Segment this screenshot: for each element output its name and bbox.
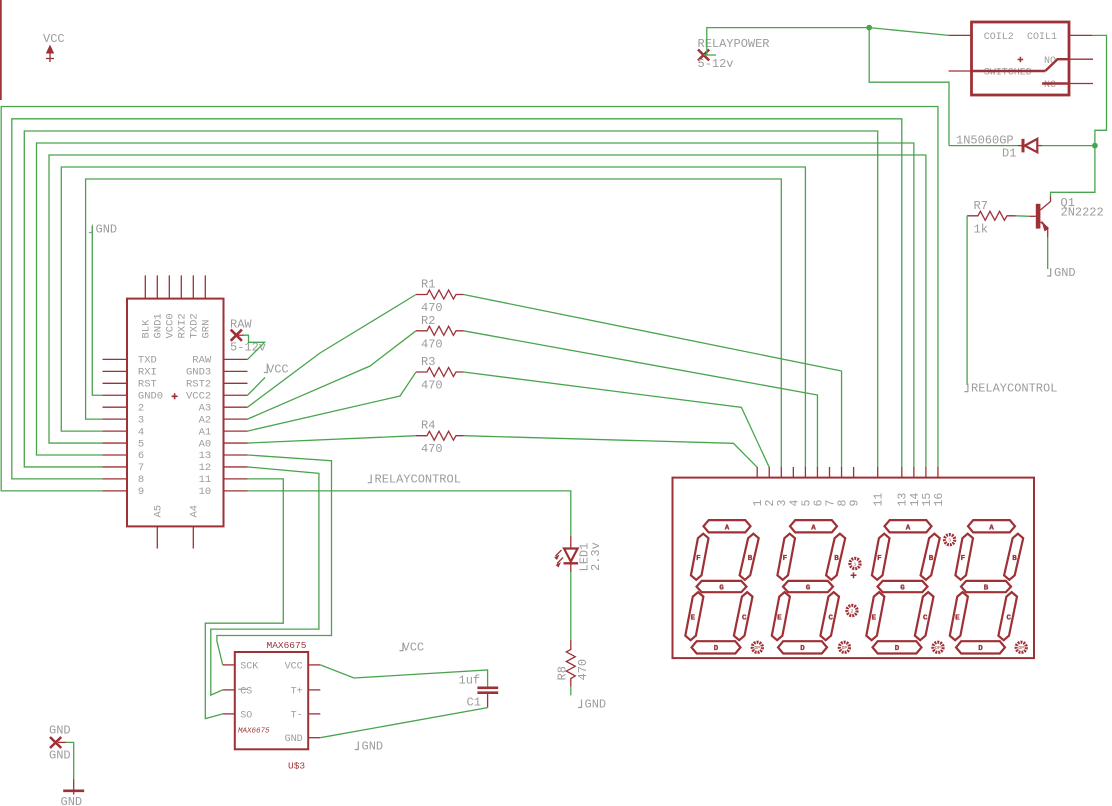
svg-text:RAW: RAW — [230, 318, 252, 332]
IC top pins BLK GND1 VCC0 RXI2 TXD2 GRN — [145, 275, 205, 298]
IC U1 Arduino Pro Mini body — [127, 299, 224, 527]
wire R4 to display pin1 — [464, 436, 758, 468]
svg-text:1k: 1k — [974, 223, 988, 237]
svg-text:A5: A5 — [153, 505, 165, 518]
svg-text:GND3: GND3 — [186, 367, 211, 379]
svg-text:MAX6675: MAX6675 — [267, 640, 307, 651]
MAX6675 right pins VCC T+ T- GND — [308, 665, 320, 738]
svg-text:C: C — [742, 614, 747, 622]
svg-text:470: 470 — [421, 442, 443, 456]
svg-text:C: C — [829, 614, 834, 622]
svg-text:G: G — [900, 584, 905, 592]
IC left pins — [103, 359, 128, 490]
no-connect X RELAYPOWER — [698, 37, 770, 71]
svg-text:7: 7 — [138, 462, 144, 474]
wire R1 to display pin8 — [464, 295, 842, 468]
wire IC pin10 RELAYCONTROL to LED1 — [248, 491, 571, 536]
svg-text:GRN: GRN — [201, 320, 213, 339]
svg-text:GND0: GND0 — [138, 390, 163, 402]
svg-text:F: F — [696, 555, 701, 563]
svg-text:A: A — [989, 524, 994, 532]
svg-text:RXI: RXI — [138, 367, 157, 379]
wire junction down to diode net — [869, 28, 949, 146]
IC left pin names — [138, 355, 163, 498]
svg-text:11: 11 — [873, 493, 886, 507]
resistor R8 470 (vertical) — [555, 640, 590, 687]
capacitor C1 1uf — [459, 674, 499, 710]
svg-text:RST: RST — [138, 379, 157, 391]
svg-text:D: D — [714, 645, 719, 653]
svg-text:CS: CS — [240, 686, 252, 697]
wire GND X to ground symbol — [58, 741, 66, 743]
svg-text:GND: GND — [1054, 266, 1076, 280]
relay NC contact bar — [1042, 82, 1069, 84]
svg-text:GND: GND — [49, 724, 71, 738]
relay pin COIL2 (left top) — [949, 34, 972, 36]
svg-text:BLK: BLK — [141, 319, 153, 339]
wire IC pin12 to MAX6675 CS — [211, 467, 319, 695]
display pad circle at 854.5,609.7 — [847, 605, 857, 615]
wire IC pin3 to display pin3 — [86, 179, 782, 467]
resistor R3 470 — [416, 355, 464, 393]
svg-text:COIL1: COIL1 — [1027, 32, 1057, 43]
MAX6675 pin names — [240, 661, 258, 721]
svg-text:A0: A0 — [199, 438, 212, 450]
svg-text:VCC: VCC — [285, 661, 303, 672]
svg-text:8: 8 — [138, 474, 144, 486]
wire Q1 emitter to GND label — [1047, 237, 1049, 269]
wire IC pin5 to display pin15 — [49, 155, 926, 467]
relay pin NO (right) — [1069, 58, 1093, 60]
junction diode/relay/transistor — [1092, 143, 1098, 149]
wire MAX6675 VCC to C1 — [320, 665, 487, 687]
svg-text:SO: SO — [240, 710, 252, 721]
wire IC pin6 to display pin14 — [37, 143, 914, 467]
display digit 2 — [772, 520, 845, 653]
svg-text:R7: R7 — [974, 199, 988, 213]
svg-text:DP: DP — [935, 645, 941, 651]
display pad circle at 757.3,647.3 — [752, 642, 762, 652]
svg-text:470: 470 — [576, 659, 590, 681]
wire junction to Q1 collector — [1051, 146, 1095, 197]
label GND (below R8) — [578, 698, 606, 712]
svg-text:470: 470 — [421, 337, 443, 351]
svg-text:TXD2: TXD2 — [189, 313, 201, 338]
svg-text:GND: GND — [96, 223, 118, 237]
relay K1 body — [972, 22, 1070, 95]
svg-text:470: 470 — [421, 379, 443, 393]
svg-text:NC: NC — [1044, 80, 1056, 91]
IC right pins — [224, 359, 248, 490]
display DIS1 pin numbers — [752, 493, 946, 507]
svg-text:13: 13 — [199, 450, 212, 462]
wire junction to COIL2 pin — [869, 28, 948, 36]
wire R7 to Q1 base — [1016, 215, 1031, 218]
svg-text:2.3v: 2.3v — [589, 542, 603, 571]
wire IC pin9 to display pin16 — [1, 107, 938, 491]
svg-text:DP: DP — [754, 645, 760, 651]
display digit 3 — [866, 520, 939, 653]
svg-text:E: E — [872, 614, 877, 622]
label VCC (at C1) — [400, 641, 425, 655]
MAX6675 left pins SCK CS SO — [223, 665, 235, 714]
svg-text:T+: T+ — [291, 686, 303, 697]
svg-text:A4: A4 — [189, 505, 201, 518]
wire COIL1 to diode junction — [1092, 35, 1107, 145]
svg-text:10: 10 — [199, 486, 212, 498]
svg-text:A: A — [906, 524, 911, 532]
svg-text:F: F — [961, 555, 966, 563]
frame edge segment — [0, 0, 2, 100]
svg-text:A3: A3 — [199, 402, 212, 414]
svg-text:C: C — [1007, 614, 1012, 622]
relay pin SWITCHED (left) — [949, 70, 972, 72]
wire IC pin4 to display pin5 — [61, 167, 805, 467]
svg-text:R1: R1 — [421, 278, 435, 292]
supply symbol VCC (top left) — [43, 32, 65, 62]
label GND (Q1 emitter) — [1047, 266, 1075, 280]
svg-text:A: A — [811, 524, 816, 532]
svg-text:B: B — [929, 555, 934, 563]
LED LED1 2.3v — [554, 536, 603, 572]
svg-text:RXI2: RXI2 — [177, 313, 189, 338]
wire LED1 to R8 — [570, 572, 572, 640]
svg-text:VCC0: VCC0 — [165, 313, 177, 338]
svg-text:A: A — [725, 524, 730, 532]
svg-text:U$3: U$3 — [288, 761, 305, 772]
svg-text:R3: R3 — [421, 355, 435, 369]
wire IC pin11 to MAX6675 SO — [205, 479, 283, 719]
wire IC pin7 to display pin11 — [24, 131, 877, 467]
svg-text:2: 2 — [851, 608, 854, 614]
svg-text:D1: D1 — [1002, 147, 1016, 161]
IC right pin names — [186, 355, 212, 498]
svg-text:F: F — [877, 555, 882, 563]
svg-text:E: E — [955, 614, 960, 622]
svg-text:9: 9 — [849, 500, 862, 507]
display DIS1 pins — [757, 467, 938, 478]
svg-text:3: 3 — [138, 414, 144, 426]
svg-text:VCC: VCC — [43, 32, 65, 46]
display pad circle at 1021.2,647.3 — [1016, 642, 1026, 652]
svg-text:16: 16 — [933, 493, 946, 507]
svg-text:E: E — [691, 614, 696, 622]
svg-text:1: 1 — [752, 500, 765, 507]
display pad circle at 938,647.3 — [933, 642, 943, 652]
wire RAW X to IC pin RAW — [238, 334, 244, 336]
wire IC A2 to R2 — [248, 331, 417, 419]
svg-text:6: 6 — [812, 500, 825, 507]
svg-text:C1: C1 — [467, 696, 481, 710]
IC top pin names — [141, 313, 213, 338]
IC bottom pin names — [153, 505, 201, 518]
svg-text:2: 2 — [764, 500, 777, 507]
svg-text:D: D — [895, 645, 900, 653]
svg-text:DP: DP — [842, 645, 848, 651]
svg-text:GND1: GND1 — [153, 313, 165, 338]
svg-text:RAW: RAW — [192, 355, 212, 367]
svg-text:SWITCHED: SWITCHED — [984, 68, 1032, 79]
svg-text:DP: DP — [1018, 645, 1024, 651]
svg-text:E: E — [777, 614, 782, 622]
svg-text:A2: A2 — [199, 414, 212, 426]
svg-text:GND: GND — [585, 698, 607, 712]
display digit 1 — [685, 520, 758, 653]
svg-text:B: B — [834, 555, 839, 563]
svg-text:11: 11 — [199, 474, 212, 486]
display origin cross — [851, 572, 857, 578]
svg-text:RELAYCONTROL: RELAYCONTROL — [971, 382, 1057, 396]
wire RELAYPOWER net (X up and across to relay) — [704, 54, 716, 56]
svg-text:14: 14 — [909, 493, 922, 507]
IC U1 origin cross — [172, 393, 178, 399]
svg-text:9: 9 — [138, 486, 144, 498]
svg-text:TXD: TXD — [138, 355, 157, 367]
IC bottom pins A5 A4 — [157, 526, 193, 548]
svg-text:G: G — [719, 584, 724, 592]
resistor R1 470 — [416, 278, 464, 316]
label GND (net GND, top of IC) — [89, 223, 117, 237]
label GND (MAX6675) — [355, 740, 383, 754]
wire IC pin8 to display pin13 — [12, 119, 902, 479]
wire R7 to RELAYCONTROL label — [966, 216, 968, 385]
label RELAYCONTROL (at R7) — [964, 382, 1057, 396]
svg-text:1: 1 — [854, 561, 857, 567]
IC U$3 MAX6675 body — [235, 652, 308, 749]
svg-text:15: 15 — [921, 493, 934, 507]
svg-text:COIL2: COIL2 — [984, 32, 1014, 43]
display pad circle at 854.5,564.7 — [850, 558, 860, 568]
svg-text:5-12v: 5-12v — [698, 57, 734, 71]
relay NO contact bar — [1057, 58, 1069, 60]
svg-text:R8: R8 — [555, 666, 569, 680]
svg-text:GND: GND — [61, 795, 83, 806]
svg-text:R4: R4 — [421, 419, 435, 433]
svg-text:4: 4 — [788, 500, 801, 507]
wire diode to junction — [1042, 145, 1095, 147]
relay pin COIL1 (right top) — [1069, 34, 1092, 36]
svg-text:D: D — [978, 645, 983, 653]
relay origin cross — [1018, 57, 1024, 63]
label VCC (at IC VCC2) — [264, 363, 289, 377]
wire IC A3 to R1 — [248, 295, 417, 408]
wire IC A1 to R3 — [248, 372, 417, 431]
resistor R7 1k — [967, 199, 1015, 237]
svg-text:B: B — [984, 584, 989, 592]
MAX6675 CS inversion strike — [238, 688, 247, 690]
svg-text:3: 3 — [776, 500, 789, 507]
svg-text:2: 2 — [138, 402, 144, 414]
svg-text:8: 8 — [836, 500, 849, 507]
svg-text:SCK: SCK — [240, 661, 258, 672]
svg-text:G: G — [806, 584, 811, 592]
wire IC pin13 to MAX6675 SCK — [217, 455, 332, 665]
svg-text:5: 5 — [138, 438, 144, 450]
svg-text:VCC: VCC — [267, 363, 289, 377]
svg-text:1uf: 1uf — [459, 674, 481, 688]
svg-text:2N2222: 2N2222 — [1061, 205, 1104, 219]
svg-text:D: D — [800, 645, 805, 653]
svg-text:RELAYCONTROL: RELAYCONTROL — [375, 473, 461, 487]
wire C1 to MAX6675 GND — [320, 708, 487, 738]
svg-text:RST2: RST2 — [186, 379, 211, 391]
ground symbol GND (bottom left) — [61, 779, 85, 806]
svg-text:4: 4 — [138, 426, 144, 438]
wire IC A0 to R4 — [248, 436, 417, 443]
relay switch lever — [1045, 59, 1057, 71]
relay pin NC (right) — [1069, 83, 1093, 85]
svg-text:3: 3 — [948, 538, 951, 544]
resistor R2 470 — [416, 314, 464, 352]
no-connect X RAW — [230, 318, 266, 355]
wire diode net (left segment) — [949, 145, 1018, 147]
wire R8 to GND label — [570, 687, 572, 696]
display digit 4 — [950, 520, 1023, 653]
svg-text:GND: GND — [285, 734, 303, 745]
svg-text:A1: A1 — [199, 426, 212, 438]
diode D1 1N5060GP — [956, 134, 1042, 161]
wire R2 to display pin6 — [464, 331, 818, 468]
svg-text:12: 12 — [199, 462, 212, 474]
svg-text:B: B — [748, 555, 753, 563]
wire VCC2 to label — [248, 378, 266, 396]
svg-text:C: C — [923, 614, 928, 622]
svg-text:5: 5 — [800, 500, 813, 507]
svg-text:F: F — [783, 555, 788, 563]
svg-text:MAX6675: MAX6675 — [238, 728, 270, 736]
wire GND label to IC pin GND0 — [92, 226, 102, 395]
display pad circle at 949.6,539.7 — [945, 535, 955, 545]
svg-text:6: 6 — [138, 450, 144, 462]
svg-text:GND: GND — [49, 749, 71, 763]
transistor Q1 2N2222 — [1030, 196, 1104, 237]
svg-text:1N5060GP: 1N5060GP — [956, 134, 1014, 148]
relay switch common bar — [972, 70, 1046, 72]
resistor R4 470 — [416, 419, 464, 457]
svg-text:GND: GND — [362, 740, 384, 754]
svg-text:R2: R2 — [421, 314, 435, 328]
display DIS1 body — [673, 478, 1035, 658]
svg-text:RELAYPOWER: RELAYPOWER — [698, 37, 770, 51]
no-connect X GND (bottom left) — [49, 724, 71, 763]
junction RELAYPOWER — [866, 25, 872, 31]
display pad circle at 844.4,647.3 — [839, 642, 849, 652]
svg-text:T-: T- — [291, 710, 303, 721]
label RELAYCONTROL (at IC pin10 wire) — [368, 473, 461, 487]
svg-text:7: 7 — [824, 500, 837, 507]
svg-text:VCC2: VCC2 — [186, 390, 211, 402]
wire R3 to display pin2 — [464, 372, 770, 467]
svg-text:VCC: VCC — [403, 641, 425, 655]
svg-text:13: 13 — [897, 493, 910, 507]
svg-text:B: B — [1012, 555, 1017, 563]
